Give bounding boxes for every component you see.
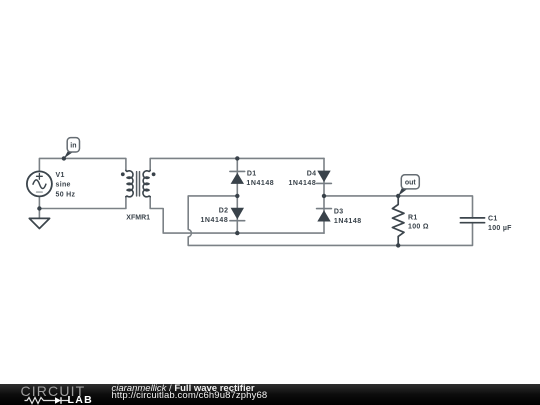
- D2 labels: [200, 208, 228, 224]
- junction dot V1 bottom: [37, 206, 41, 210]
- transformer phase dot secondary: [152, 172, 156, 176]
- capacitor C1 plates: [460, 218, 484, 223]
- attribution line 2 url: [112, 391, 268, 401]
- svg-text:50 Hz: 50 Hz: [56, 191, 76, 198]
- junction dot D2 bottom AC2: [235, 231, 239, 235]
- D3 labels: [334, 209, 362, 225]
- svg-text:D3: D3: [334, 209, 344, 216]
- resistor R1: [392, 196, 404, 246]
- CircuitLab logo CIRCUIT: [21, 384, 86, 398]
- transformer phase dot primary: [121, 172, 125, 176]
- V1 labels: [56, 172, 76, 198]
- node in box: [67, 138, 79, 152]
- svg-text:100 Ω: 100 Ω: [408, 224, 429, 231]
- svg-text:XFMR1: XFMR1: [126, 215, 150, 222]
- svg-text:D4: D4: [307, 171, 317, 178]
- node in wedge pointer: [64, 150, 73, 158]
- diode D4 cathode bar: [317, 182, 332, 184]
- svg-text:100 µF: 100 µF: [488, 225, 512, 232]
- transformer XFMR1 primary coil: [126, 170, 133, 196]
- svg-text:1N4148: 1N4148: [200, 217, 228, 224]
- wire secondary top rail to bridge: [150, 158, 324, 170]
- svg-text:D2: D2: [219, 208, 229, 215]
- D1 labels: [246, 171, 274, 187]
- svg-text:R1: R1: [408, 214, 418, 221]
- wire D4-D3 column: [323, 158, 325, 233]
- svg-text:1N4148: 1N4148: [246, 180, 274, 187]
- CircuitLab logo resistor+diode+LAB: [23, 396, 98, 405]
- wire V1 bottom to ground: [38, 196, 40, 218]
- junction dot X node: [235, 194, 239, 198]
- svg-text:in: in: [70, 143, 76, 150]
- transformer XFMR1 secondary coil: [143, 170, 150, 196]
- V1 sine symbol: [33, 180, 46, 189]
- R1 labels: [408, 214, 429, 230]
- diode D2 cathode bar: [230, 220, 245, 222]
- wire primary bottom rail: [39, 197, 126, 209]
- diode D1 body: [231, 173, 244, 184]
- D4 labels: [288, 171, 316, 187]
- diode D4 body: [317, 171, 330, 183]
- V1 plus sign: [37, 173, 43, 179]
- wire Y node output rail to R1 and C1: [324, 196, 473, 218]
- junction dot R1 bottom: [396, 243, 400, 247]
- svg-text:V1: V1: [56, 172, 65, 179]
- wire secondary bottom to AC2 rail: [150, 197, 324, 233]
- svg-text:D1: D1: [247, 171, 257, 178]
- junction dot R1 top: [396, 194, 400, 198]
- junction dot top rail D1: [235, 156, 239, 160]
- footer bar: [0, 384, 540, 405]
- transformer XFMR1 core: [137, 172, 140, 196]
- V1 minus sign: [37, 191, 43, 193]
- junction dot Y node: [322, 194, 326, 198]
- svg-text:1N4148: 1N4148: [334, 218, 362, 225]
- diode D2 body: [231, 208, 244, 220]
- attribution line 1: [112, 384, 255, 394]
- wire primary top rail from V1 to XFMR1 primary: [39, 158, 126, 171]
- ground: [29, 218, 49, 228]
- svg-text:C1: C1: [488, 215, 498, 222]
- diode D3 body: [317, 210, 330, 221]
- node in callout dot: [62, 156, 66, 160]
- C1 labels: [488, 215, 512, 231]
- diode D1 cathode bar: [230, 170, 245, 172]
- voltage source V1 circle: [27, 171, 52, 196]
- wire D1-D2 column: [236, 158, 238, 233]
- svg-text:out: out: [405, 180, 417, 187]
- diode D3 cathode bar: [317, 208, 332, 210]
- svg-text:1N4148: 1N4148: [288, 180, 316, 187]
- wire X node to DC- rail with hop over AC2: [188, 196, 472, 246]
- svg-text:sine: sine: [56, 181, 71, 188]
- node out wedge pointer: [398, 187, 407, 196]
- node out box: [401, 175, 419, 189]
